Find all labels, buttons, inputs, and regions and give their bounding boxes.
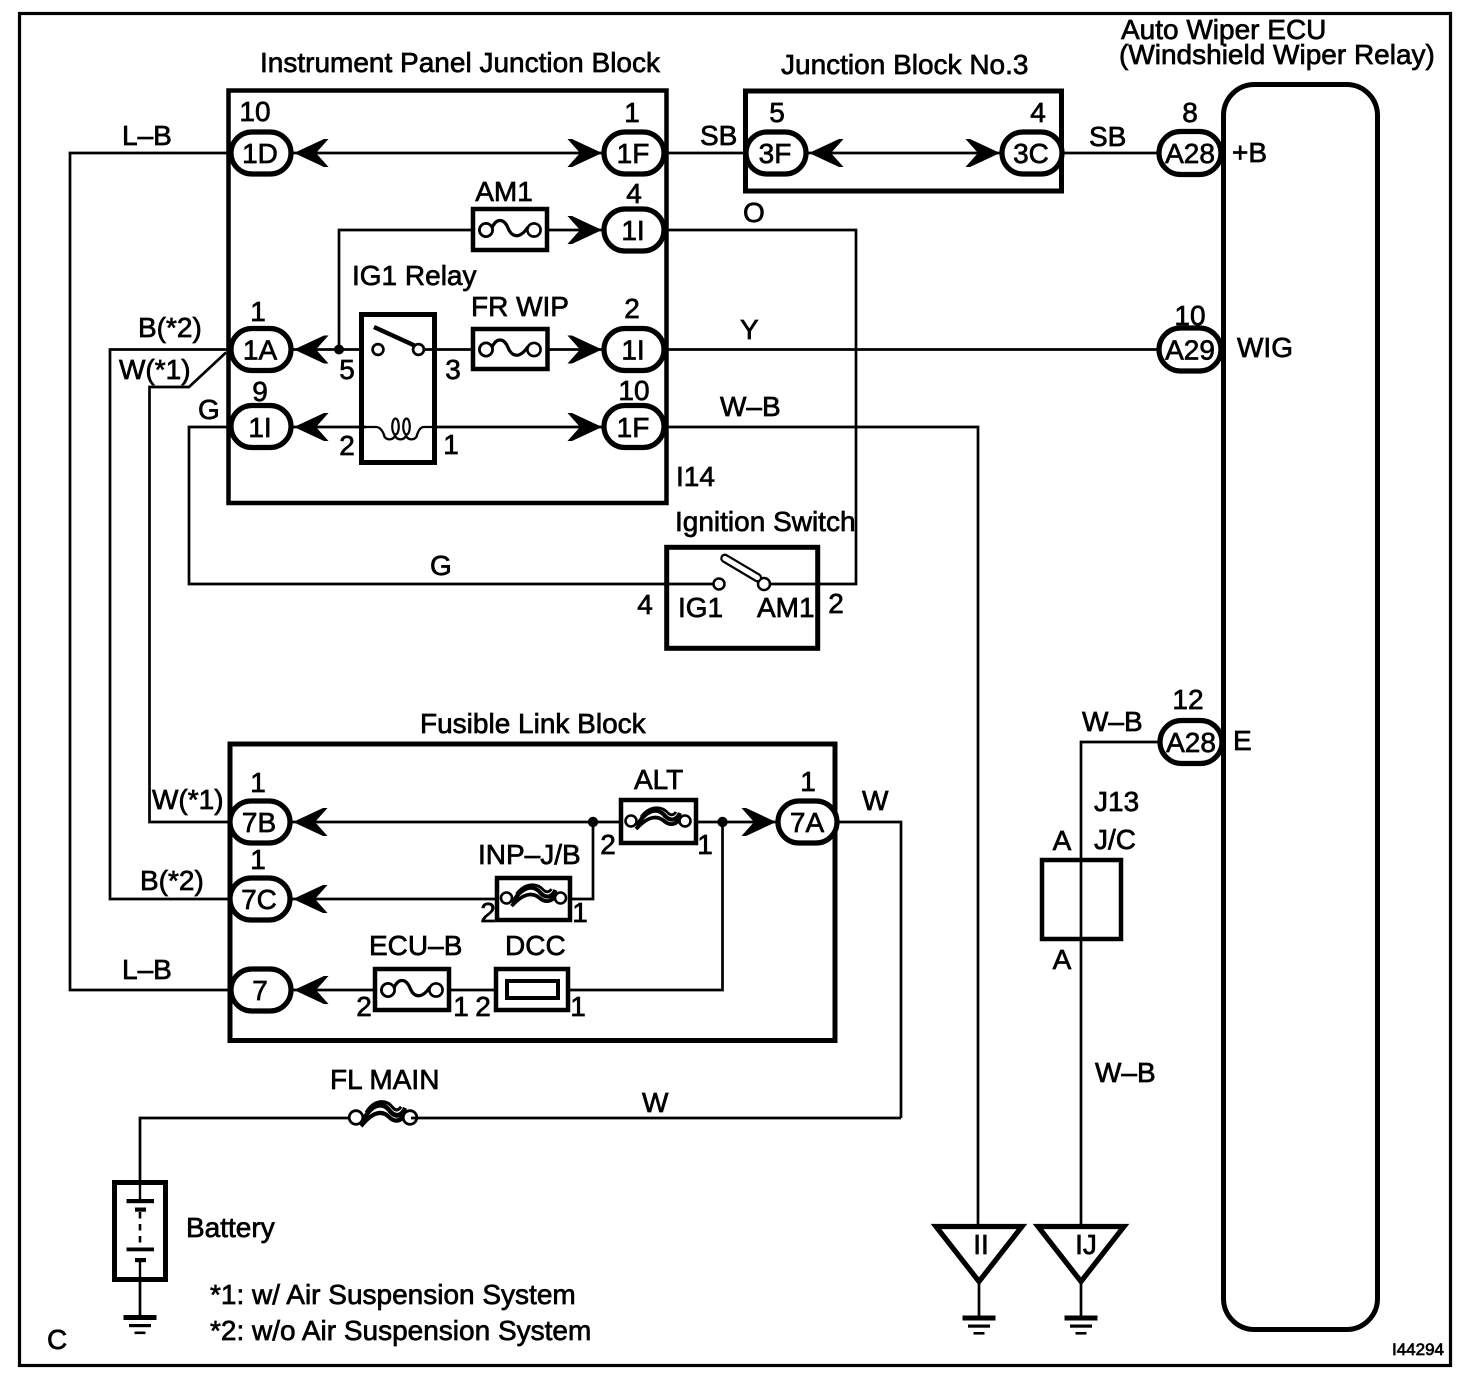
wire 1A to relay pin 5 xyxy=(292,348,364,351)
svg-text:Fusible Link Block: Fusible Link Block xyxy=(420,708,647,739)
wire Y: 1I(2) to A29 xyxy=(664,314,1160,350)
wire G net: 1I(9) to Ignition Switch IG1 xyxy=(189,394,714,584)
wire relay pin 1 to 1F(10) xyxy=(437,426,604,429)
svg-text:L–B: L–B xyxy=(122,954,172,985)
svg-text:W(*1): W(*1) xyxy=(152,784,224,815)
svg-text:+B: +B xyxy=(1232,137,1267,168)
svg-text:A29: A29 xyxy=(1165,335,1215,366)
wire AM1 to 1I(4) xyxy=(547,229,604,232)
connector 1A pin 1 xyxy=(231,296,291,371)
svg-text:II: II xyxy=(973,1229,989,1260)
svg-text:I14: I14 xyxy=(676,461,715,492)
wire ECU-B to DCC xyxy=(449,989,496,992)
svg-text:W–B: W–B xyxy=(1095,1057,1156,1088)
ground (IJ) xyxy=(1065,1316,1098,1335)
svg-text:B(*2): B(*2) xyxy=(138,312,202,343)
ground connector II xyxy=(936,1227,1022,1282)
svg-text:ALT: ALT xyxy=(634,764,683,795)
relay contact circles xyxy=(373,344,424,355)
svg-text:FR WIP: FR WIP xyxy=(471,291,569,322)
wire O net: 1I(4) to ignition switch AM1 xyxy=(664,197,856,584)
connector 7 xyxy=(231,969,291,1011)
fusible link FL MAIN xyxy=(330,1064,439,1126)
svg-text:3C: 3C xyxy=(1013,138,1049,169)
svg-text:3F: 3F xyxy=(759,138,792,169)
connector 1D pin 10 xyxy=(231,96,291,174)
wire W(*1) net: 1A to 7B xyxy=(119,353,229,823)
svg-text:5: 5 xyxy=(339,354,355,385)
svg-text:12: 12 xyxy=(1172,684,1203,715)
svg-text:2: 2 xyxy=(339,430,355,461)
wire L-B net: 1D to Fusible Link 7 xyxy=(70,120,230,990)
svg-text:(Windshield Wiper Relay): (Windshield Wiper Relay) xyxy=(1119,39,1435,70)
svg-text:W–B: W–B xyxy=(720,391,781,422)
svg-text:SB: SB xyxy=(700,120,737,151)
svg-text:1: 1 xyxy=(624,97,640,128)
connector 7A pin 1 xyxy=(778,766,837,843)
svg-text:Battery: Battery xyxy=(186,1212,275,1243)
wire 7 to ECU-B xyxy=(292,989,375,992)
Fusible Link Block box xyxy=(230,708,835,1041)
svg-text:W: W xyxy=(642,1087,669,1118)
arrow into 3F xyxy=(809,139,844,167)
wire 7C to INP-J/B xyxy=(292,898,497,901)
junction node ALT pin 2 tap xyxy=(588,817,598,827)
svg-text:1: 1 xyxy=(697,829,713,860)
wire INP-J/B pin1 up to ALT pin2 node xyxy=(570,822,593,899)
arrow into 1A xyxy=(294,336,329,364)
svg-text:1: 1 xyxy=(572,897,588,928)
svg-text:A: A xyxy=(1053,825,1072,856)
svg-text:Y: Y xyxy=(740,314,759,345)
relay IG1 box xyxy=(352,260,477,463)
arrow into 7A xyxy=(742,808,777,836)
wire FR WIP to 1I(2) xyxy=(547,348,604,351)
wire 1D to 1F xyxy=(293,152,604,155)
wire II to ground xyxy=(978,1281,981,1316)
svg-text:1I: 1I xyxy=(621,215,644,246)
circuit breaker DCC xyxy=(475,930,586,1022)
wire IJ to ground xyxy=(1080,1281,1083,1316)
svg-text:IG1 Relay: IG1 Relay xyxy=(352,260,477,291)
wire SB: 1F to 3F xyxy=(664,120,746,153)
svg-text:10: 10 xyxy=(1174,300,1205,331)
I14 Ignition Switch box xyxy=(667,461,856,648)
wire relay coil row: 1I(9) to relay pin 2 xyxy=(292,426,366,429)
connector A28 pin 8 xyxy=(1159,97,1221,175)
svg-text:J13: J13 xyxy=(1094,786,1139,817)
svg-text:AM1: AM1 xyxy=(757,592,815,623)
connector 1I pin 9 xyxy=(231,376,291,448)
svg-text:O: O xyxy=(743,197,765,228)
svg-text:2: 2 xyxy=(624,293,640,324)
svg-text:W–B: W–B xyxy=(1082,706,1143,737)
svg-text:4: 4 xyxy=(626,178,642,209)
svg-text:SB: SB xyxy=(1089,121,1126,152)
ground connector IJ xyxy=(1038,1227,1124,1282)
Instrument Panel Junction Block box xyxy=(229,47,667,503)
arrow into 7B xyxy=(293,808,328,836)
connector 7C pin 1 xyxy=(230,844,290,920)
svg-text:7A: 7A xyxy=(790,807,825,838)
wire DCC pin1 up to ALT pin1 node xyxy=(568,822,723,990)
ignition switch terminal IG1 xyxy=(678,579,725,624)
svg-text:1: 1 xyxy=(443,429,459,460)
svg-text:A: A xyxy=(1053,944,1072,975)
svg-text:1D: 1D xyxy=(242,138,278,169)
arrow into 1I(2) xyxy=(568,336,603,364)
junction connector J13 J/C xyxy=(1042,786,1139,975)
svg-text:1: 1 xyxy=(800,766,816,797)
svg-text:IG1: IG1 xyxy=(678,592,723,623)
junction node DCC tap xyxy=(717,817,727,827)
wire FL MAIN to 7A riser xyxy=(411,1087,901,1118)
svg-text:1: 1 xyxy=(453,991,469,1022)
ignition switch blade xyxy=(720,553,762,582)
wire relay 3 to FR WIP xyxy=(423,348,473,351)
wire AM1 feed from relay node xyxy=(339,230,473,349)
svg-text:10: 10 xyxy=(239,96,270,127)
arrow into 1F xyxy=(568,139,603,167)
svg-text:Instrument Panel Junction Bloc: Instrument Panel Junction Block xyxy=(260,47,661,78)
svg-text:Junction Block No.3: Junction Block No.3 xyxy=(781,49,1028,80)
svg-text:2: 2 xyxy=(356,991,372,1022)
svg-text:Ignition Switch: Ignition Switch xyxy=(675,506,856,537)
svg-text:W: W xyxy=(862,785,889,816)
svg-text:1: 1 xyxy=(250,844,266,875)
svg-text:IJ: IJ xyxy=(1075,1229,1097,1260)
svg-text:DCC: DCC xyxy=(505,930,566,961)
wire W net: 7A to FL MAIN row xyxy=(837,785,901,1118)
fuse AM1 xyxy=(473,176,547,250)
wire B(*2) net: 1A to 7C xyxy=(110,312,229,899)
fusible link INP-J/B xyxy=(478,839,588,928)
wire E net: A28(12) to J/C to ground IJ xyxy=(1081,706,1160,1226)
svg-text:1F: 1F xyxy=(617,412,650,443)
wire ALT to 7A xyxy=(696,821,778,824)
ground (II) xyxy=(963,1316,996,1335)
arrow into 7 xyxy=(294,976,329,1004)
fuse ECU-B xyxy=(356,930,469,1022)
arrow into 1D xyxy=(294,139,329,167)
svg-text:1I: 1I xyxy=(248,412,271,443)
wire battery to ground xyxy=(139,1282,142,1316)
svg-text:WIG: WIG xyxy=(1237,332,1293,363)
svg-text:I44294: I44294 xyxy=(1392,1340,1444,1359)
Auto Wiper ECU box xyxy=(1119,14,1435,1330)
svg-text:10: 10 xyxy=(618,375,649,406)
svg-text:4: 4 xyxy=(1030,97,1046,128)
svg-text:1: 1 xyxy=(570,991,586,1022)
fusible link ALT xyxy=(600,764,713,860)
svg-text:*2: w/o Air Suspension System: *2: w/o Air Suspension System xyxy=(210,1315,591,1346)
arrow into 1F(10) xyxy=(568,413,603,441)
svg-text:8: 8 xyxy=(1182,97,1198,128)
svg-text:J/C: J/C xyxy=(1094,824,1136,855)
svg-text:1A: 1A xyxy=(243,335,278,366)
svg-text:1: 1 xyxy=(250,767,266,798)
Junction Block No.3 box xyxy=(746,49,1062,191)
svg-text:9: 9 xyxy=(252,376,268,407)
fuse FR WIP xyxy=(471,291,569,369)
svg-text:3: 3 xyxy=(445,354,461,385)
svg-text:ECU–B: ECU–B xyxy=(369,930,462,961)
svg-text:4: 4 xyxy=(637,589,653,620)
arrow into 1I(9) xyxy=(294,413,329,441)
svg-text:INP–J/B: INP–J/B xyxy=(478,839,581,870)
svg-text:*1: w/ Air Suspension System: *1: w/ Air Suspension System xyxy=(210,1279,576,1310)
svg-text:AM1: AM1 xyxy=(475,176,533,207)
connector 1F pin 1 xyxy=(604,97,664,174)
connector 1F pin 10 xyxy=(604,375,664,448)
svg-text:W(*1): W(*1) xyxy=(119,354,191,385)
svg-text:7C: 7C xyxy=(241,884,277,915)
battery xyxy=(115,1183,275,1280)
svg-text:7B: 7B xyxy=(242,807,276,838)
connector 1I pin 2 xyxy=(604,293,664,371)
arrow into 7C xyxy=(293,885,328,913)
svg-text:A28: A28 xyxy=(1166,727,1216,758)
svg-text:2: 2 xyxy=(475,991,491,1022)
svg-text:B(*2): B(*2) xyxy=(140,865,204,896)
arrow into 1I(4) xyxy=(568,216,603,244)
wire SB: 3C to A28 xyxy=(1063,121,1160,153)
svg-text:E: E xyxy=(1233,725,1252,756)
svg-text:G: G xyxy=(198,394,220,425)
junction node at relay pin 5 xyxy=(334,345,344,355)
ignition switch terminal AM1 xyxy=(757,578,818,623)
svg-text:2: 2 xyxy=(600,829,616,860)
svg-text:7: 7 xyxy=(252,975,268,1006)
svg-text:2: 2 xyxy=(828,588,844,619)
connector A28 pin 12 xyxy=(1160,684,1222,764)
wire 7B to ALT xyxy=(292,821,621,824)
svg-text:FL MAIN: FL MAIN xyxy=(330,1064,439,1095)
ground (battery) xyxy=(124,1315,157,1334)
svg-text:C: C xyxy=(47,1324,67,1355)
wire 3F to 3C xyxy=(808,152,1002,155)
svg-text:G: G xyxy=(430,550,452,581)
connector A29 pin 10 xyxy=(1159,300,1221,371)
connector 1I pin 4 xyxy=(604,178,664,251)
svg-text:1F: 1F xyxy=(617,138,650,169)
arrow into 3C xyxy=(966,139,1001,167)
svg-text:L–B: L–B xyxy=(122,120,172,151)
svg-text:5: 5 xyxy=(769,97,785,128)
svg-text:1I: 1I xyxy=(621,335,644,366)
svg-text:2: 2 xyxy=(480,897,496,928)
connector 3F pin 5 xyxy=(746,97,806,174)
svg-text:1: 1 xyxy=(250,296,266,327)
relay switch blade xyxy=(374,327,415,346)
svg-text:A28: A28 xyxy=(1165,138,1215,169)
connector 3C pin 4 xyxy=(1002,97,1062,174)
wire W-B net: 1F(10) to ground II xyxy=(664,391,978,1226)
wire battery to FL MAIN to W xyxy=(140,1118,349,1180)
connector 7B pin 1 xyxy=(230,767,290,843)
relay coil xyxy=(362,419,435,440)
